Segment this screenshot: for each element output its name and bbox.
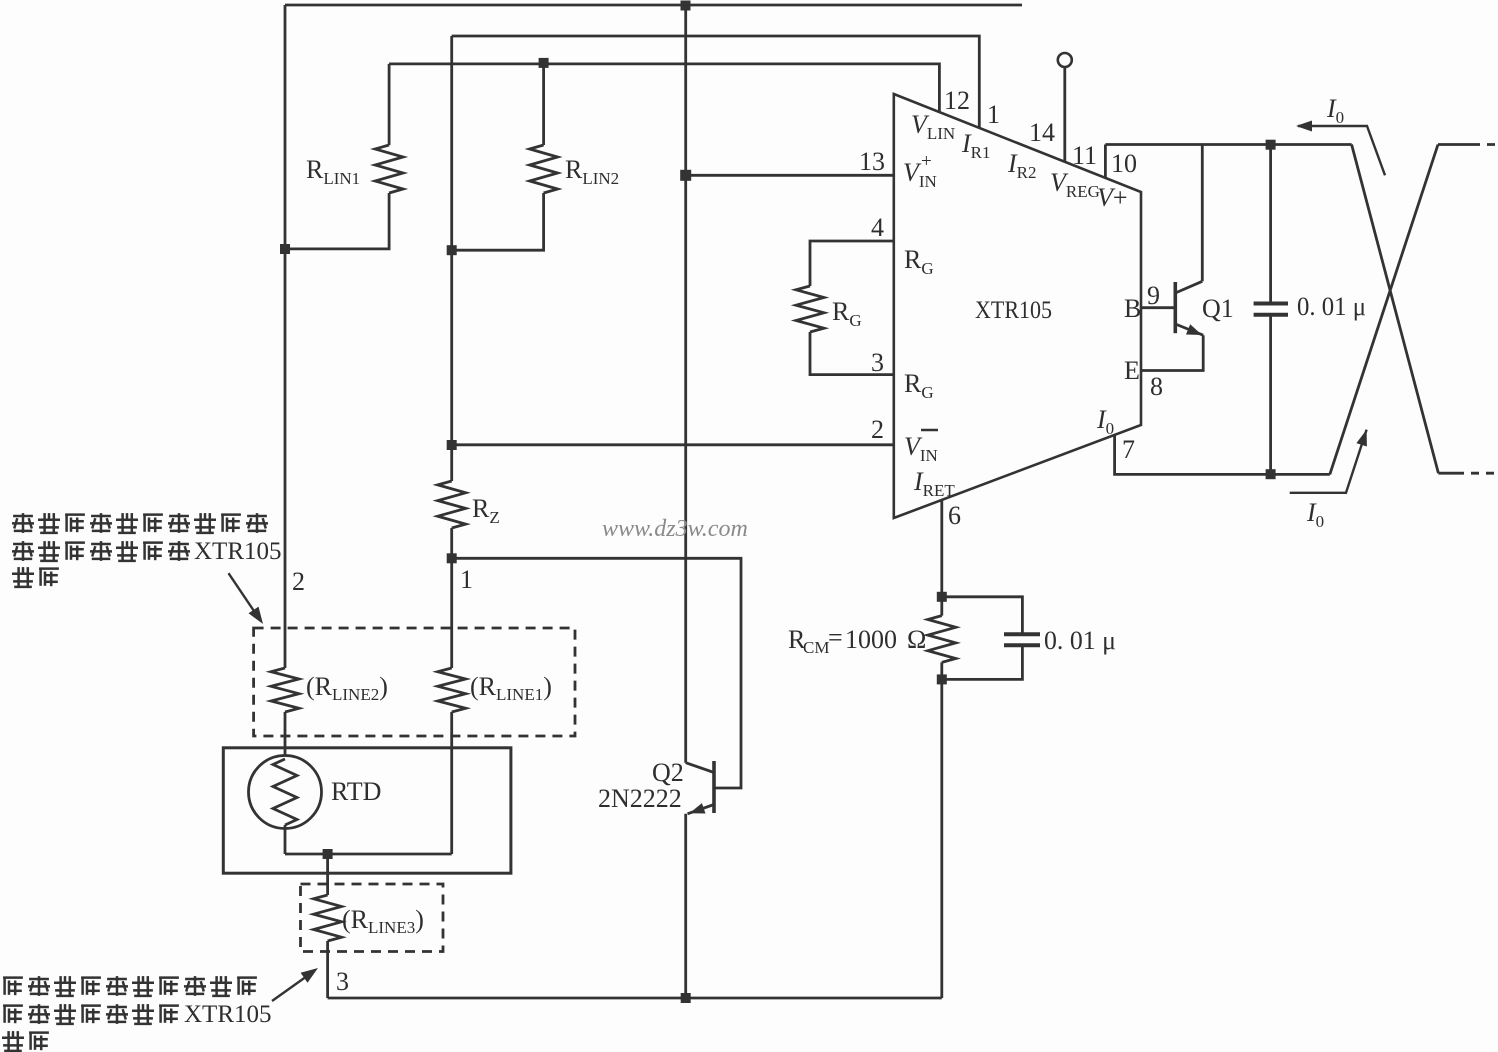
- wire output loop crossing lines: [1352, 145, 1439, 474]
- wire VIN- (pin 2): [452, 443, 894, 446]
- svg-text:9: 9: [1147, 281, 1160, 310]
- transistor Q1: [1141, 306, 1175, 309]
- resistor RZ: [438, 481, 466, 528]
- wire bottom return bus: [328, 997, 942, 1000]
- svg-text:13: 13: [859, 147, 885, 176]
- resistor RG external: [810, 241, 894, 286]
- svg-text:2: 2: [871, 415, 884, 444]
- svg-text:3: 3: [871, 348, 884, 377]
- wire pin 11 terminal: [1058, 53, 1072, 67]
- svg-text:RTD: RTD: [331, 777, 381, 806]
- svg-text:V+: V+: [1097, 183, 1128, 212]
- node junction cap top: [1266, 140, 1276, 150]
- wire pin 10 to output: [1104, 145, 1107, 179]
- op-amp U1 XTR105 body: [894, 94, 1141, 518]
- svg-text:3: 3: [336, 967, 349, 996]
- transistor Q2 2N2222: [712, 761, 716, 813]
- resistor (RLINE3): [326, 854, 329, 895]
- solid box RTD: [223, 748, 511, 873]
- arrow IO bottom annotation: [1290, 430, 1367, 493]
- svg-text:XTR105: XTR105: [184, 1001, 272, 1028]
- svg-text:Q1: Q1: [1202, 294, 1234, 323]
- wire Q2 emitter down: [684, 814, 687, 998]
- arrow annotation 1: [229, 573, 257, 614]
- node junction mid bus / RLIN2: [447, 245, 457, 255]
- svg-text:2: 2: [292, 567, 305, 596]
- svg-text:6: 6: [948, 501, 961, 530]
- svg-text:E: E: [1124, 356, 1140, 385]
- annotation text bottom-left (Chinese): [2, 976, 272, 1051]
- node junction RTD bottom / RLINE3: [323, 849, 333, 859]
- svg-text:8: 8: [1150, 372, 1163, 401]
- svg-text:1000: 1000: [845, 625, 897, 654]
- svg-text:B: B: [1124, 294, 1141, 323]
- wire third bus (to pin 12): [389, 64, 939, 113]
- svg-text:7: 7: [1122, 435, 1135, 464]
- arrow annotation 2: [272, 978, 305, 1002]
- svg-text:14: 14: [1029, 118, 1055, 147]
- svg-text:=: =: [828, 623, 843, 652]
- node junction bottom bus / Q2 emitter: [681, 993, 691, 1003]
- dashed box equivalent line resistances 1,2: [254, 628, 575, 736]
- node junction cap bottom: [1266, 469, 1276, 479]
- svg-text:CM: CM: [803, 638, 829, 657]
- wire pin 13 stub: [686, 174, 894, 177]
- resistor RLIN1: [388, 64, 391, 145]
- svg-text:4: 4: [871, 213, 884, 242]
- node junction VIN- tap: [447, 440, 457, 450]
- node junction node 1 / Q2 base branch: [447, 553, 457, 563]
- capacitor C1 0.01u: [1269, 145, 1272, 304]
- svg-text:0. 01 μ: 0. 01 μ: [1297, 292, 1366, 321]
- arrow IO top annotation: [1298, 126, 1385, 175]
- annotation text top-left (Chinese): [12, 513, 282, 587]
- wire middle vertical (node 1 line): [450, 36, 453, 481]
- capacitor C2 0.01u parallel RCM: [942, 597, 1023, 634]
- node junction RCM top: [937, 592, 947, 602]
- svg-text:1: 1: [460, 565, 473, 594]
- wire pin 6 / IRET: [940, 500, 943, 616]
- node junction left bus / RLIN1: [280, 244, 290, 254]
- RTD sensor: [249, 756, 322, 829]
- svg-text:10: 10: [1111, 149, 1137, 178]
- svg-text:1: 1: [987, 100, 1000, 129]
- resistor (RLINE2): [271, 668, 299, 712]
- svg-text:11: 11: [1072, 141, 1097, 170]
- wire pin 7 to output: [1115, 435, 1330, 475]
- svg-text:2N2222: 2N2222: [598, 784, 682, 813]
- svg-text:Ω: Ω: [907, 625, 926, 654]
- svg-text:0. 01 μ: 0. 01 μ: [1044, 626, 1116, 655]
- resistor RLIN2: [542, 63, 545, 145]
- node junction top bus / Q2 branch: [681, 1, 691, 11]
- wire RTD bottom junction: [284, 825, 287, 854]
- svg-text:Q2: Q2: [652, 758, 684, 787]
- wire node1 to Q2 base: [452, 558, 741, 788]
- svg-text:12: 12: [944, 86, 970, 115]
- resistor (RLINE1): [438, 668, 466, 712]
- wire top supply bus: [285, 4, 1022, 7]
- node junction RLIN2 top: [539, 58, 549, 68]
- svg-text:XTR105: XTR105: [975, 297, 1052, 324]
- wire long vertical to Q2 collector: [684, 5, 687, 763]
- wire left vertical (node 2 line): [284, 5, 287, 668]
- node junction pin13 / long vertical: [680, 170, 691, 181]
- wire RZ to node 1: [450, 528, 453, 668]
- resistor RCM: [928, 616, 956, 663]
- svg-text:XTR105: XTR105: [194, 538, 282, 565]
- node junction RCM bottom: [937, 674, 947, 684]
- svg-text:+: +: [921, 151, 932, 172]
- svg-text:www.dz3w.com: www.dz3w.com: [602, 516, 748, 542]
- wire second bus (to pin 1): [452, 36, 980, 128]
- dashed box equivalent line resistance 3: [301, 884, 444, 952]
